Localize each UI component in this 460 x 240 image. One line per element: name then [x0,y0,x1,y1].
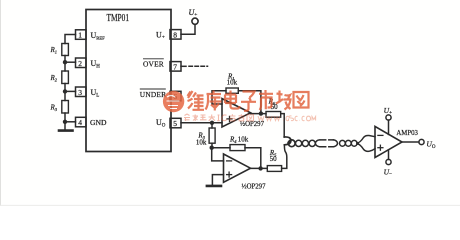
svg-text:½OP297: ½OP297 [240,121,265,128]
svg-text:10k: 10k [196,139,207,147]
twisted pair loop c [302,140,308,146]
svg-text:R2: R2 [50,74,58,83]
wire R5 to twisted pair lower [282,145,287,169]
svg-text:U+: U+ [156,30,165,40]
svg-text:UH: UH [91,59,101,70]
svg-text:U+: U+ [189,8,198,18]
wire U4 output [402,141,419,143]
svg-text:AMP03: AMP03 [396,128,418,137]
wire upper op-amp minus input [212,91,226,104]
wire U4 to U- terminal [388,150,390,160]
char chang [276,91,291,110]
node junction dot pin4 [63,120,67,124]
wire R1 feedback to output node [238,91,261,114]
pin 8 box [170,30,181,39]
svg-text:R4: R4 [229,135,237,144]
terminal U+ (AMP03) [386,115,391,120]
char zi [241,92,256,111]
op-amp U2 upper OP297 triangle [222,99,251,127]
wire R4 to output node of U3 [245,148,261,169]
svg-text:R3: R3 [50,104,58,113]
twisted pair cable left knot [284,137,291,145]
wire to AMP03 plus input [357,144,375,152]
svg-text:3: 3 [78,88,82,97]
watermark logo circle [163,91,184,112]
svg-text:1: 1 [78,31,82,40]
svg-text:8: 8 [173,30,177,39]
wire dashed from pin7 OVER [181,65,186,67]
op-amp U4 AMP03 triangle [375,126,402,157]
U4 minus sign [378,134,383,136]
resistor R3 [62,101,69,114]
ground (left ladder) [64,122,66,130]
U2 minus sign [226,102,231,104]
svg-text:U−: U− [384,168,392,178]
char dian [225,91,240,109]
twisted pair loop f [345,140,351,146]
U2 plus sign [227,118,232,120]
wire R6 to twisted pair upper [281,114,285,137]
twisted pair long section left cap [315,140,319,147]
resistor R4 10k [230,145,245,151]
wire node B to R4 [212,147,230,149]
resistor R5 50 [267,166,281,172]
pin 6 box [170,91,181,101]
U3 plus sign [227,174,232,176]
svg-text:UREF: UREF [91,31,106,41]
svg-text:OVER: OVER [143,60,164,69]
svg-text:R1: R1 [50,46,58,55]
resistor R2 [62,71,69,84]
node junction dot pin3 [63,89,67,93]
scan edge shading [0,0,2,206]
wire pin5 UO to op-amp + input [181,122,222,124]
twisted pair loop a [288,140,295,147]
watermark text line 1 [188,90,309,111]
terminal UO output [419,139,424,144]
node B junction dot [210,146,214,150]
pin 5 box [170,118,181,128]
svg-text:TMP01: TMP01 [107,13,130,24]
svg-text:UL: UL [91,88,100,99]
wire R3mid to node B [211,143,213,148]
terminal U+ (top) [192,18,198,24]
op-amp U1 TMP01 IC body [86,10,171,152]
watermark www.dzsc.com [258,116,316,121]
pin 7 box [170,62,181,72]
wire R2 to node [64,84,66,101]
svg-text:GND: GND [90,118,107,127]
ground (U3) [207,185,221,188]
svg-text:4: 4 [78,118,82,127]
wire pin1 to R1 [65,35,76,44]
wire node B to U3 inverting input [212,148,224,161]
wire R3 to node [64,113,66,122]
svg-text:U+: U+ [384,106,392,116]
terminal U- (AMP03) [386,159,391,164]
U4 plus sign [378,147,383,149]
wire U3 output [251,167,268,169]
svg-text:10k: 10k [227,79,238,87]
wire node to pin4 [65,121,76,123]
svg-text:UNDER: UNDER [140,90,166,99]
svg-text:10k: 10k [238,135,249,143]
twisted pair long section right cap [333,140,337,147]
pin 4 box [76,117,87,127]
wire U4 to U+ terminal [388,120,390,134]
wire to AMP03 minus input [357,135,375,143]
wire node to pin2 [65,61,76,63]
op-amp U3 lower OP297 triangle [224,154,251,182]
char wei [188,91,205,110]
pin 2 box [76,58,87,68]
resistor R1 [62,44,69,56]
pin 1 box [76,30,87,40]
wire pin8 to U+ terminal [181,24,195,34]
svg-text:50: 50 [270,155,278,163]
resistor R6 50 [266,112,281,118]
char wang [294,92,309,108]
twisted pair loop d [309,140,315,146]
node junction dot pin2 [63,60,67,64]
char ku [206,91,222,111]
wire R1 to node [64,56,66,72]
svg-text:UO: UO [156,118,166,129]
resistor R3 10k vertical [209,128,215,143]
U3 minus sign [227,160,232,162]
svg-text:7: 7 [173,62,177,71]
pin 3 box [76,87,87,97]
svg-text:½OP297: ½OP297 [242,184,267,191]
wire node to R3mid [211,123,213,128]
resistor R1 10k feedback upper [226,88,238,93]
node junction dot U3 output [258,166,262,170]
svg-text:2: 2 [78,59,82,68]
char shi [259,90,273,110]
wire U2 output [251,113,267,115]
twisted pair right knot [356,142,359,145]
wire node to pin3 [65,90,76,92]
wire U3 + input to ground [212,175,223,185]
twisted pair loop g [351,140,357,146]
svg-text:UO: UO [426,139,435,150]
node junction dot U2 output [259,111,263,115]
twisted pair long section dashes [321,139,334,141]
watermark text line 2 [184,114,254,121]
svg-text:5: 5 [173,119,177,128]
twisted pair loop e [340,140,346,146]
twisted pair loop b [296,140,302,146]
node junction dot pin5 net [210,121,214,125]
